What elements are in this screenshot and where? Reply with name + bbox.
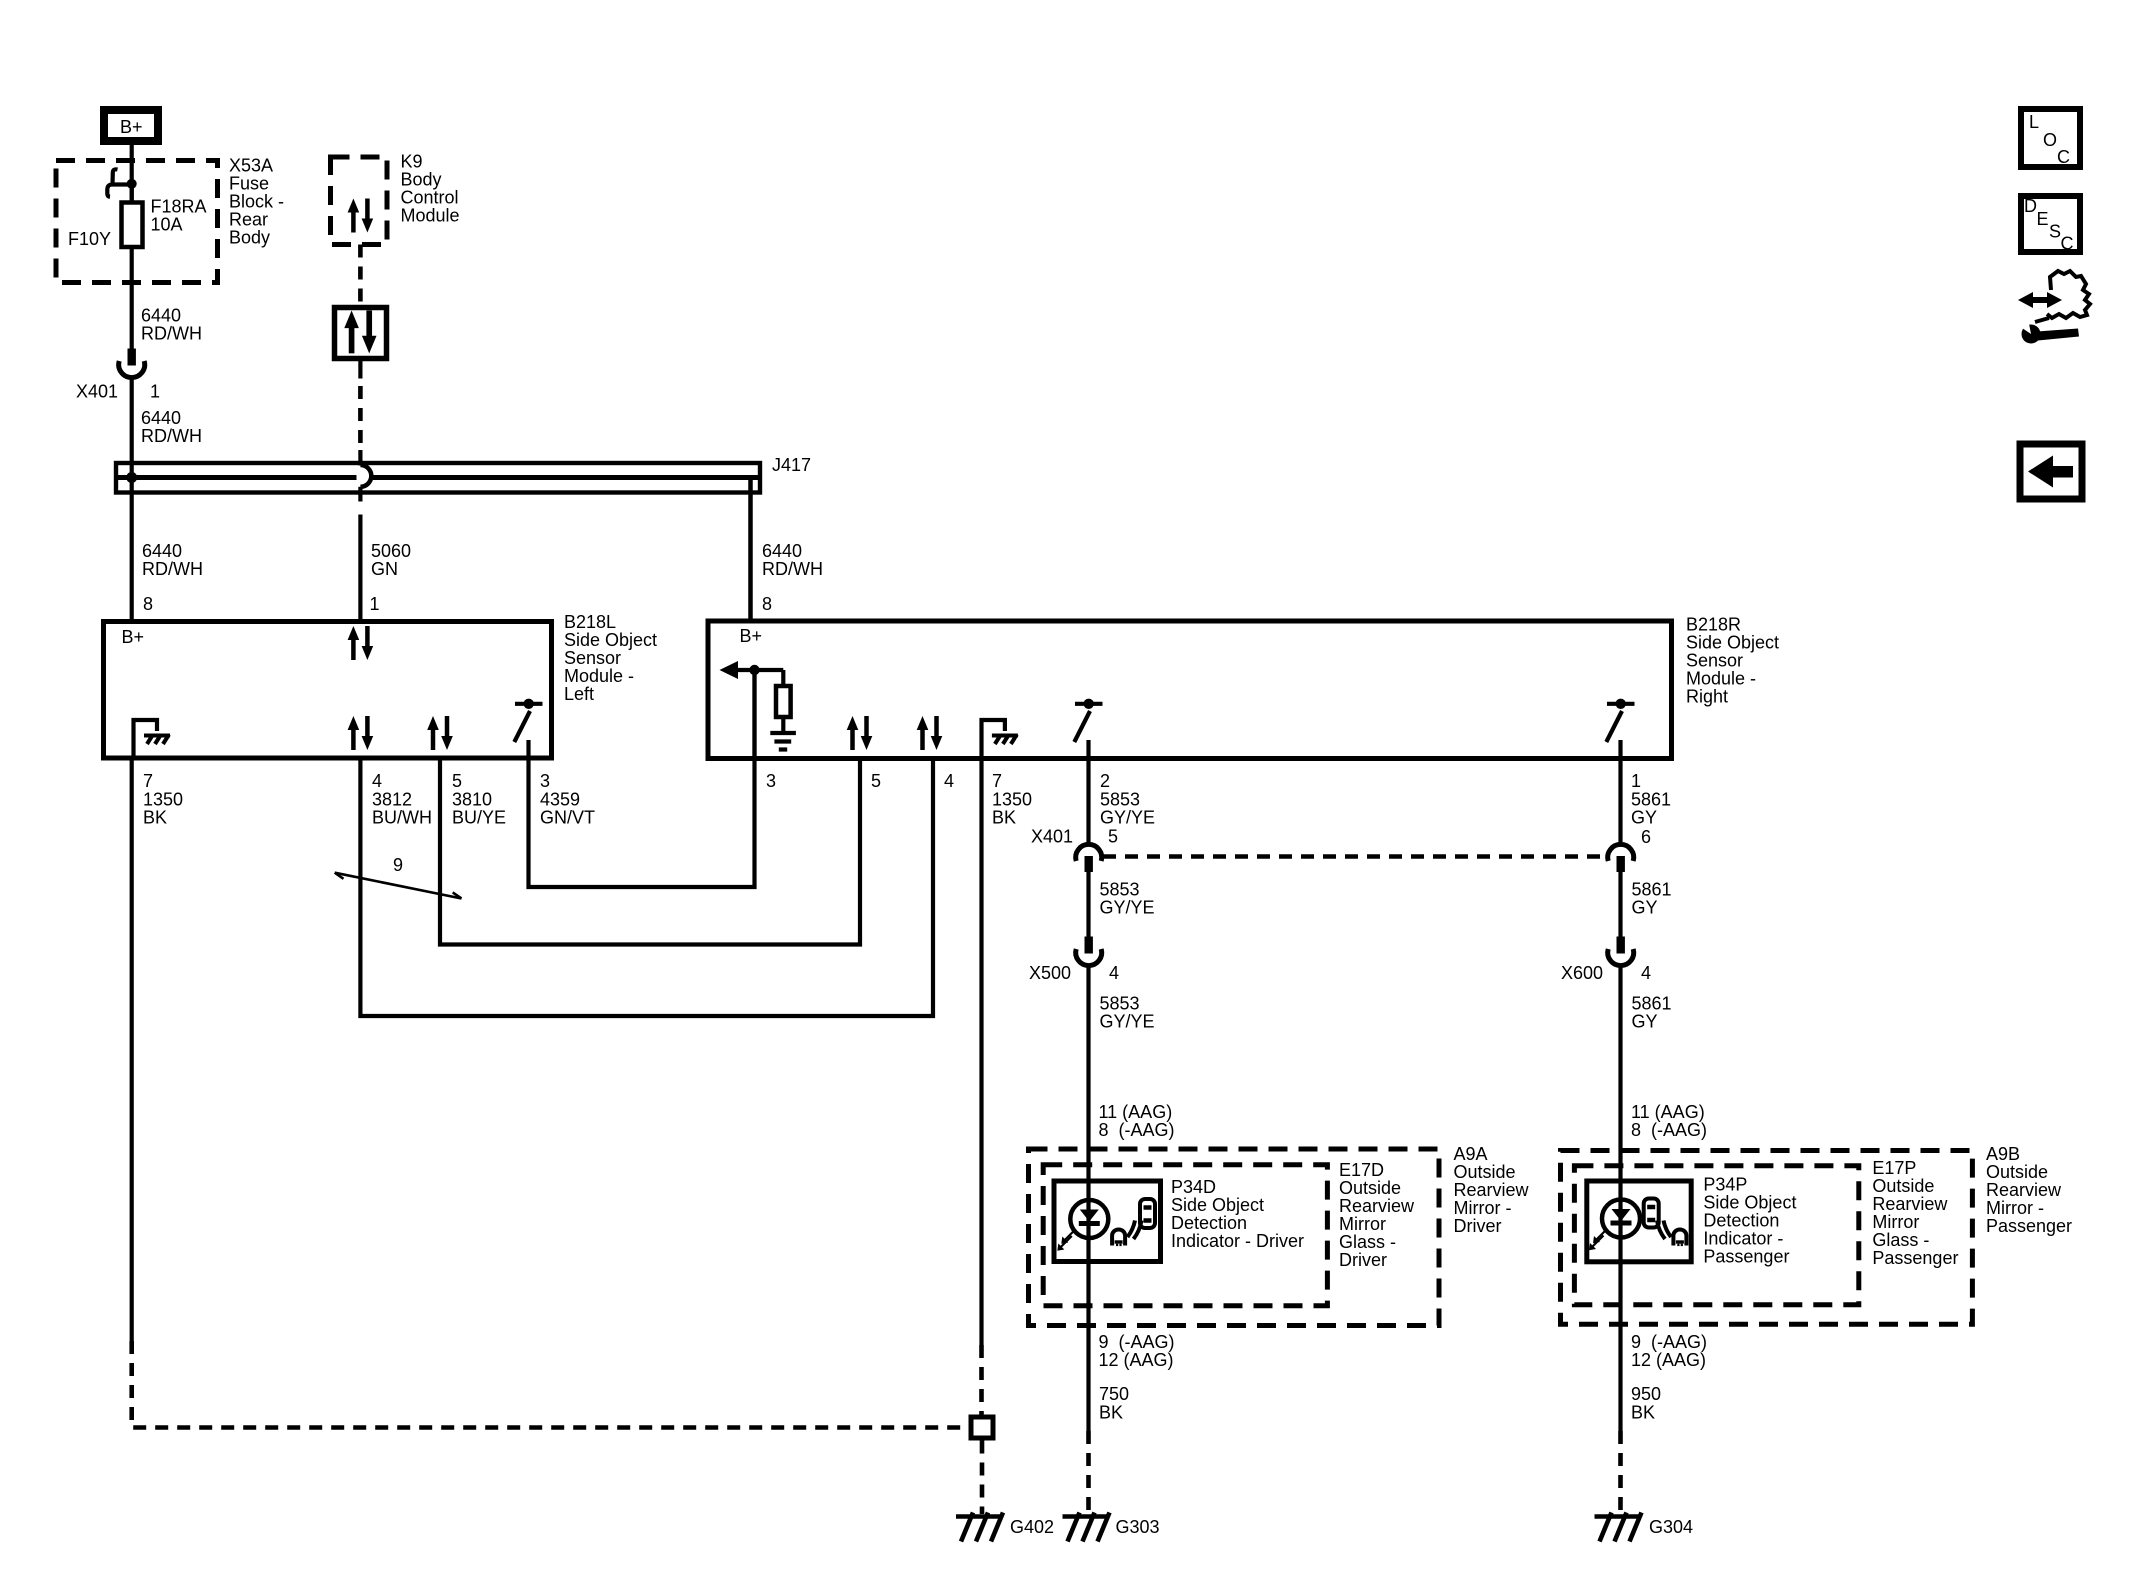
svg-text:8 (-AAG): 8 (-AAG)	[1099, 1120, 1175, 1140]
wire K9 to serial data symbol	[358, 245, 363, 306]
B218R signal arrows (pin 5)	[847, 716, 873, 750]
svg-text:RD/WH: RD/WH	[141, 426, 202, 446]
svg-text:C: C	[2061, 234, 2074, 254]
svg-text:Passenger: Passenger	[1986, 1216, 2072, 1236]
dashed link X401 pin 5 to pin 6	[1103, 854, 1607, 859]
svg-text:E17P: E17P	[1872, 1158, 1916, 1178]
svg-text:Driver: Driver	[1454, 1216, 1502, 1236]
pin label 11 (AAG) / 8 (-AAG)	[1099, 1102, 1175, 1140]
svg-text:BK: BK	[143, 808, 167, 828]
svg-text:Mirror -: Mirror -	[1454, 1198, 1512, 1218]
wire B218R pin 7 dashed to splice square	[979, 1345, 984, 1415]
B218L signal arrows (pin 4)	[348, 716, 374, 750]
svg-text:Right: Right	[1686, 687, 1728, 707]
svg-text:Glass -: Glass -	[1339, 1232, 1396, 1252]
splice pack J417	[116, 455, 811, 493]
ground G402	[956, 1513, 1054, 1542]
svg-text:A9B: A9B	[1986, 1144, 2020, 1164]
side object sensor module B218R	[708, 615, 1779, 759]
power feed B+	[104, 110, 158, 141]
svg-text:Body: Body	[401, 170, 442, 190]
label 5853 GY/YE (below X500)	[1100, 994, 1155, 1032]
svg-text:Outside: Outside	[1872, 1176, 1934, 1196]
svg-text:Outside: Outside	[1454, 1162, 1516, 1182]
label 6440 RD/WH (below X401)	[141, 408, 202, 446]
B218L signal arrows (pin 5)	[427, 716, 453, 750]
wire X401 pin 6 to X600	[1618, 871, 1622, 937]
side object sensor module B218L	[104, 612, 658, 758]
svg-text:GY/YE: GY/YE	[1100, 1012, 1155, 1032]
fuse F18RA 10A (F10Y)	[68, 184, 207, 249]
svg-text:Glass -: Glass -	[1872, 1230, 1929, 1250]
outside rearview mirror A9B	[1561, 1144, 2073, 1324]
svg-text:Left: Left	[564, 684, 594, 704]
B218L pin 3 label 4359 GN/VT	[540, 771, 595, 828]
svg-text:1: 1	[1631, 771, 1641, 791]
svg-text:F10Y: F10Y	[68, 229, 111, 249]
svg-text:RD/WH: RD/WH	[141, 324, 202, 344]
indicator P34D	[1054, 1177, 1304, 1262]
svg-text:6440: 6440	[762, 541, 802, 561]
svg-text:RD/WH: RD/WH	[762, 559, 823, 579]
svg-text:GY: GY	[1632, 898, 1658, 918]
svg-text:L: L	[2029, 112, 2039, 132]
svg-text:6440: 6440	[142, 541, 182, 561]
connector X401 pin 6	[1608, 827, 1651, 872]
svg-text:GY/YE: GY/YE	[1100, 808, 1155, 828]
svg-text:1: 1	[370, 594, 380, 614]
B218R internal arrow with resistor to ground (pin 3)	[720, 661, 796, 758]
svg-text:E17D: E17D	[1339, 1160, 1384, 1180]
svg-text:6440: 6440	[141, 408, 181, 428]
wire P34P to ground G304	[1618, 1431, 1623, 1514]
mirror glass E17D	[1043, 1160, 1415, 1306]
svg-text:5861: 5861	[1632, 880, 1672, 900]
connector X401 pin 1	[76, 349, 160, 402]
icon LOC	[2021, 109, 2080, 167]
svg-text:Side Object: Side Object	[564, 630, 657, 650]
svg-text:5853: 5853	[1100, 880, 1140, 900]
svg-text:J417: J417	[772, 455, 811, 475]
wire splice square to ground G402	[980, 1441, 985, 1515]
svg-text:8 (-AAG): 8 (-AAG)	[1631, 1120, 1707, 1140]
svg-text:750: 750	[1099, 1384, 1129, 1404]
wire B218R pin 7 (1350 BK) down	[979, 758, 983, 1345]
pin label 11 (AAG) / 8 (-AAG) right	[1631, 1102, 1707, 1140]
svg-text:O: O	[2043, 130, 2057, 150]
pin label 9 (-AAG) / 12 (AAG) right	[1631, 1332, 1707, 1370]
wire J417 to B218L pin 1 (5060 GN)	[360, 487, 411, 621]
svg-text:Module -: Module -	[564, 666, 634, 686]
B218L pin 7 label 1350 BK	[143, 771, 183, 828]
svg-text:1350: 1350	[143, 790, 183, 810]
wire X500 to P34D	[1086, 966, 1090, 1432]
connector X600 pin 4	[1561, 937, 1651, 984]
B218L serial data arrows (pin 1)	[348, 626, 374, 660]
svg-text:GN: GN	[371, 559, 398, 579]
B218R pin 1 label 5861 GY	[1631, 771, 1671, 828]
svg-text:Sensor: Sensor	[1686, 651, 1743, 671]
svg-text:BU/WH: BU/WH	[372, 808, 432, 828]
svg-text:4: 4	[1109, 963, 1119, 983]
svg-text:Passenger: Passenger	[1872, 1248, 1958, 1268]
label 5861 GY	[1632, 880, 1672, 918]
svg-text:Side Object: Side Object	[1703, 1193, 1796, 1213]
wire hop over J417	[360, 465, 371, 487]
svg-text:6440: 6440	[141, 306, 181, 326]
svg-text:8: 8	[143, 594, 153, 614]
fuse block X53A	[56, 156, 284, 283]
svg-text:Outside: Outside	[1986, 1162, 2048, 1182]
label 750 BK	[1099, 1384, 1129, 1423]
svg-text:3812: 3812	[372, 790, 412, 810]
svg-text:Detection: Detection	[1703, 1211, 1779, 1231]
svg-text:1350: 1350	[992, 790, 1032, 810]
svg-text:Side Object: Side Object	[1686, 633, 1779, 653]
svg-text:3810: 3810	[452, 790, 492, 810]
svg-text:5861: 5861	[1631, 790, 1671, 810]
svg-text:X600: X600	[1561, 963, 1603, 983]
svg-text:A9A: A9A	[1454, 1144, 1488, 1164]
wire fuse to connector X401	[130, 247, 134, 349]
svg-text:Body: Body	[229, 228, 270, 248]
svg-text:1: 1	[150, 382, 160, 402]
P34D LED symbol	[1057, 1200, 1108, 1251]
svg-text:B+: B+	[122, 627, 145, 647]
twisted pair marker 9	[335, 855, 462, 899]
wire B218L pin 7 dashed to splice square	[132, 1341, 968, 1428]
svg-text:12 (AAG): 12 (AAG)	[1631, 1350, 1706, 1370]
mirror glass E17P	[1574, 1158, 1958, 1305]
svg-text:Block -: Block -	[229, 192, 284, 212]
svg-text:Side Object: Side Object	[1171, 1195, 1264, 1215]
svg-text:3: 3	[766, 771, 776, 791]
wire X401 pin 5 to X500	[1086, 871, 1090, 937]
indicator P34P	[1587, 1175, 1797, 1267]
svg-text:C: C	[2057, 147, 2070, 167]
svg-text:11 (AAG): 11 (AAG)	[1631, 1102, 1705, 1122]
svg-text:4: 4	[372, 771, 382, 791]
svg-text:Rearview: Rearview	[1986, 1180, 2062, 1200]
svg-text:6: 6	[1641, 827, 1651, 847]
svg-text:2: 2	[1100, 771, 1110, 791]
svg-text:GY: GY	[1631, 808, 1657, 828]
svg-text:5853: 5853	[1100, 994, 1140, 1014]
wire J417 to B218R pin 8 (6440 RD/WH)	[751, 478, 824, 622]
svg-text:4359: 4359	[540, 790, 580, 810]
icon DESC	[2021, 196, 2080, 254]
wire B218L pin 4 to B218R pin 4	[360, 758, 933, 1016]
svg-text:5060: 5060	[371, 541, 411, 561]
svg-text:BK: BK	[1631, 1403, 1655, 1423]
svg-text:G304: G304	[1649, 1517, 1693, 1537]
wire X401 to splice pack J417	[130, 378, 134, 478]
label 950 BK	[1631, 1384, 1661, 1423]
label 5861 GY (below X600)	[1632, 994, 1672, 1032]
svg-text:Rearview: Rearview	[1872, 1194, 1948, 1214]
svg-text:Rearview: Rearview	[1454, 1180, 1530, 1200]
svg-text:Rear: Rear	[229, 210, 268, 230]
wire B218L pin 5 to B218R pin 5	[440, 758, 860, 945]
B218R pin 2 label 5853 GY/YE	[1100, 771, 1155, 828]
svg-text:GN/VT: GN/VT	[540, 808, 595, 828]
svg-text:GY: GY	[1632, 1012, 1658, 1032]
wire B218L pin 7 (1350 BK) down	[130, 758, 134, 1341]
wire J417 to B218L pin 8 (6440 RD/WH)	[132, 477, 203, 621]
svg-text:G402: G402	[1010, 1517, 1054, 1537]
svg-text:Indicator - Driver: Indicator - Driver	[1171, 1231, 1304, 1251]
svg-text:G303: G303	[1116, 1517, 1160, 1537]
svg-text:5: 5	[1108, 827, 1118, 847]
svg-text:Driver: Driver	[1339, 1250, 1387, 1270]
B218R pin 7 label 1350 BK	[992, 771, 1032, 828]
wire B+ to fuse F18RA	[130, 145, 134, 201]
P34P LED symbol	[1589, 1200, 1640, 1251]
wire X600 to P34P	[1618, 966, 1622, 1432]
svg-text:RD/WH: RD/WH	[142, 559, 203, 579]
ground G304	[1595, 1513, 1694, 1542]
svg-text:Outside: Outside	[1339, 1178, 1401, 1198]
svg-text:5861: 5861	[1632, 994, 1672, 1014]
B218R internal switch (pin 1)	[1606, 699, 1634, 758]
pin label 9 (-AAG) / 12 (AAG)	[1099, 1332, 1175, 1370]
B218L pin 5 label 3810 BU/YE	[452, 771, 506, 828]
junction on J417	[126, 472, 137, 483]
svg-text:E: E	[2037, 209, 2049, 229]
label 5853 GY/YE	[1100, 880, 1155, 918]
svg-text:BK: BK	[1099, 1403, 1123, 1423]
svg-text:Sensor: Sensor	[564, 648, 621, 668]
svg-text:Rearview: Rearview	[1339, 1196, 1415, 1216]
svg-text:X500: X500	[1029, 963, 1071, 983]
svg-text:950: 950	[1631, 1384, 1661, 1404]
svg-text:B+: B+	[740, 626, 763, 646]
svg-text:10A: 10A	[151, 215, 183, 235]
svg-text:Mirror -: Mirror -	[1986, 1198, 2044, 1218]
svg-text:Control: Control	[401, 188, 459, 208]
svg-text:P34D: P34D	[1171, 1177, 1216, 1197]
P34P detection icon	[1644, 1199, 1687, 1247]
svg-text:X401: X401	[76, 382, 118, 402]
svg-text:B218R: B218R	[1686, 615, 1741, 635]
wire 5060 serial data to J417 (dashed)	[358, 361, 362, 466]
wire B218R pin 1 to X401 pin 6	[1618, 758, 1622, 844]
wire B218R pin 2 to X401 pin 5	[1086, 758, 1090, 844]
svg-text:Mirror: Mirror	[1339, 1214, 1386, 1234]
ground G303	[1063, 1513, 1160, 1542]
svg-text:5: 5	[871, 771, 881, 791]
B218L internal switch (pin 3)	[514, 699, 542, 758]
icon compare with wrench	[2016, 271, 2090, 344]
icon back arrow	[2020, 444, 2082, 499]
svg-text:7: 7	[992, 771, 1002, 791]
svg-text:Passenger: Passenger	[1703, 1247, 1789, 1267]
svg-text:Mirror: Mirror	[1872, 1212, 1919, 1232]
svg-text:Indicator -: Indicator -	[1703, 1229, 1783, 1249]
fuse clip symbol	[107, 169, 136, 197]
connector X500 pin 4	[1029, 937, 1119, 984]
label 6440 RD/WH	[141, 306, 202, 344]
wire B218L pin 3 to B218R pin 3	[529, 670, 755, 887]
svg-text:4: 4	[944, 771, 954, 791]
svg-text:Module: Module	[401, 206, 460, 226]
svg-text:Fuse: Fuse	[229, 174, 269, 194]
svg-text:8: 8	[762, 594, 772, 614]
svg-text:9: 9	[393, 855, 403, 875]
svg-text:5853: 5853	[1100, 790, 1140, 810]
serial data symbol	[335, 308, 387, 359]
svg-text:9 (-AAG): 9 (-AAG)	[1631, 1332, 1707, 1352]
svg-text:X401: X401	[1031, 827, 1073, 847]
svg-text:X53A: X53A	[229, 156, 273, 176]
B218L internal ground (pin 7)	[134, 720, 171, 758]
connector X401 pin 5	[1031, 827, 1118, 873]
outside rearview mirror A9A	[1029, 1144, 1530, 1326]
B218L pin 4 label 3812 BU/WH	[372, 771, 432, 828]
B218R signal arrows (pin 4)	[917, 716, 943, 750]
svg-text:BK: BK	[992, 808, 1016, 828]
splice square	[971, 1417, 993, 1438]
svg-text:3: 3	[540, 771, 550, 791]
svg-text:12 (AAG): 12 (AAG)	[1099, 1350, 1174, 1370]
B218R internal ground (pin 7)	[982, 720, 1018, 758]
svg-text:GY/YE: GY/YE	[1100, 898, 1155, 918]
svg-text:D: D	[2024, 196, 2037, 216]
svg-text:BU/YE: BU/YE	[452, 808, 506, 828]
svg-text:S: S	[2049, 222, 2061, 242]
B218R internal switch (pin 2)	[1074, 699, 1102, 758]
svg-text:9 (-AAG): 9 (-AAG)	[1099, 1332, 1175, 1352]
body control module K9	[331, 152, 460, 245]
svg-text:5: 5	[452, 771, 462, 791]
svg-text:K9: K9	[401, 152, 423, 172]
svg-text:4: 4	[1641, 963, 1651, 983]
svg-text:Module -: Module -	[1686, 669, 1756, 689]
svg-text:Detection: Detection	[1171, 1213, 1247, 1233]
svg-text:B+: B+	[120, 117, 143, 137]
svg-text:7: 7	[143, 771, 153, 791]
svg-text:11 (AAG): 11 (AAG)	[1099, 1102, 1173, 1122]
svg-text:F18RA: F18RA	[151, 197, 207, 217]
svg-text:P34P: P34P	[1703, 1175, 1747, 1195]
P34D detection icon	[1112, 1199, 1155, 1246]
svg-text:B218L: B218L	[564, 612, 616, 632]
wire P34D to ground G303	[1086, 1431, 1091, 1514]
